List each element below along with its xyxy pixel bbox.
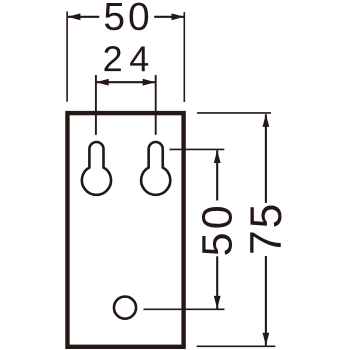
plate outline [67, 113, 183, 347]
dim 24: extension line right [155, 75, 157, 135]
dim 75: dimension line upper segment [265, 114, 267, 203]
dim 50 top: arrowhead right [172, 13, 185, 20]
dim 50 top: extension line left [66, 11, 68, 101]
dim 75: arrowhead up [263, 114, 270, 127]
dim 75: extension line top [197, 112, 271, 114]
dim 75: dimension line lower segment [265, 256, 267, 345]
dim 50 right: extension line bottom (from hole) [144, 308, 225, 310]
dim 50 right: arrowhead up [214, 150, 221, 163]
dim 50 top: extension line right [183, 12, 185, 102]
dim 24: arrowhead left [96, 79, 109, 86]
dim 75: arrowhead down [263, 333, 270, 346]
dim 50 top: dimension line left segment [68, 16, 100, 18]
dim 50 top: arrowhead left [68, 13, 81, 20]
bottom hole [114, 297, 136, 319]
dim 50 right: arrowhead down [214, 296, 221, 309]
svg-text:50: 50 [103, 0, 152, 39]
keyhole slot right [141, 142, 170, 195]
dim 50 right: dimension line upper segment [216, 150, 218, 200]
svg-text:50: 50 [194, 202, 242, 256]
dim 50 right: extension line top (from keyhole) [170, 148, 225, 150]
svg-text:75: 75 [242, 202, 291, 255]
dim 24: extension line left [95, 75, 97, 135]
dim 24: dimension line [96, 81, 155, 83]
keyhole slot left [82, 142, 111, 195]
dim 50 right: dimension line lower segment [216, 256, 218, 308]
svg-text:24: 24 [103, 38, 156, 79]
dim 75: extension line bottom [197, 345, 276, 347]
dim 50 top: dimension line right segment [154, 16, 184, 18]
dim 24: arrowhead right [143, 79, 156, 86]
